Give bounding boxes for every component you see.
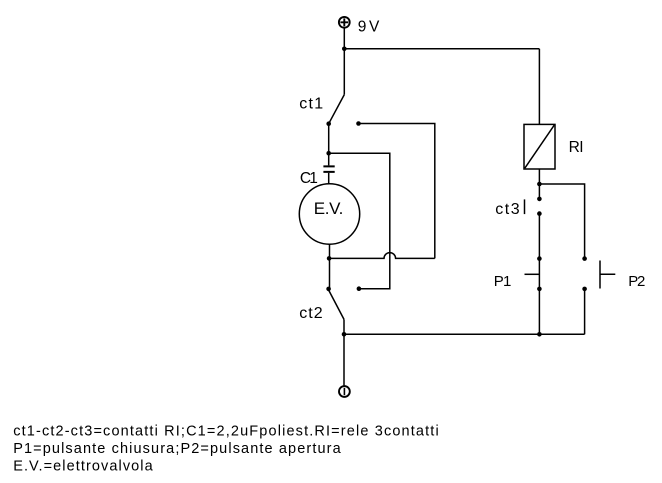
battery positive terminal 9V bbox=[339, 17, 350, 28]
battery negative terminal bbox=[339, 386, 350, 397]
wire relay bottom to ct3 bbox=[538, 169, 540, 199]
node E.V. bottom bbox=[327, 256, 332, 261]
wire P2 bottom to rail bbox=[584, 289, 586, 334]
wire E.V. bottom node to right vertical with hopover bbox=[329, 253, 435, 259]
pushbutton P1 bbox=[525, 256, 542, 291]
wire top rail to relay branch bbox=[344, 48, 539, 50]
svg-text:ct1-ct2-ct3=contatti RI;C1=2,2: ct1-ct2-ct3=contatti RI;C1=2,2uFpoliest.… bbox=[13, 424, 438, 440]
svg-text:ct2: ct2 bbox=[299, 305, 323, 322]
solenoid valve E.V. bbox=[299, 184, 359, 244]
svg-text:E.V.=elettrovalvola: E.V.=elettrovalvola bbox=[13, 458, 153, 474]
node junction at 9V rail bbox=[342, 47, 347, 52]
wire ct3 to P1 bbox=[538, 214, 540, 335]
svg-text:P1=pulsante chiusura;P2=pulsan: P1=pulsante chiusura;P2=pulsante apertur… bbox=[13, 441, 341, 457]
node junction bottom rail left bbox=[342, 332, 347, 337]
svg-text:ct3: ct3 bbox=[495, 201, 520, 218]
wire bottom rail bbox=[344, 333, 584, 335]
wire right branch down to relay bbox=[538, 49, 540, 125]
contact ct1 bbox=[326, 95, 360, 126]
svg-text:ct1: ct1 bbox=[299, 96, 323, 113]
svg-text:RI: RI bbox=[569, 139, 584, 156]
contact ct2 bbox=[326, 287, 344, 320]
svg-text:P2: P2 bbox=[628, 273, 645, 290]
node ct2 right contact bbox=[357, 286, 362, 291]
contact ct3 bbox=[525, 197, 542, 216]
wire from 9V down to ct1 bbox=[343, 28, 345, 95]
capacitor C1 bbox=[323, 166, 334, 184]
svg-text:P1: P1 bbox=[494, 273, 512, 290]
node junction bottom rail at P1 branch bbox=[537, 332, 542, 337]
wire ct1 common down to capacitor bbox=[328, 124, 330, 166]
relay coil RI bbox=[524, 124, 555, 169]
wire ct2 down to terminal bbox=[343, 319, 345, 385]
node junction below relay bbox=[537, 182, 542, 187]
svg-text:C1: C1 bbox=[300, 170, 318, 187]
wire junction to ct2 right contact bbox=[329, 153, 390, 289]
pushbutton P2 bbox=[582, 256, 615, 291]
wire junction to P2 branch bbox=[539, 184, 584, 259]
svg-text:9V: 9V bbox=[358, 19, 380, 36]
wire ct1 right contact to right vertical bbox=[359, 124, 435, 259]
node junction below ct1 bbox=[326, 151, 331, 156]
svg-text:E.V.: E.V. bbox=[314, 199, 344, 218]
wire E.V. bottom to node bbox=[329, 244, 331, 289]
